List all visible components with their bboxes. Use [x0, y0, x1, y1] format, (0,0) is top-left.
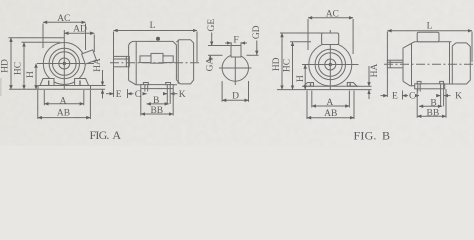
HA tick — [94, 85, 106, 87]
ring 3 — [319, 53, 343, 77]
base pad — [141, 85, 173, 89]
ring 2 — [315, 49, 345, 79]
horizontal centerline — [302, 64, 359, 66]
body outline — [129, 41, 177, 80]
dim AB B — [307, 117, 354, 119]
HC top extension — [22, 41, 61, 43]
E B arrow — [381, 95, 388, 97]
BB left extension — [140, 89, 142, 116]
right hole lines — [167, 85, 170, 104]
shaft collar — [125, 56, 127, 66]
dim H — [35, 64, 37, 90]
dim HD — [10, 38, 12, 90]
dim F left arrow — [225, 42, 231, 44]
pad line B — [302, 85, 359, 87]
terminal box rotated — [82, 50, 97, 64]
hub circle — [59, 58, 70, 69]
left foot — [40, 79, 54, 86]
motor ring 2 — [49, 48, 79, 78]
L left extension — [113, 32, 115, 98]
body seam left — [135, 41, 137, 84]
AC B left ext — [307, 19, 309, 50]
vertical centerline — [63, 30, 65, 89]
GA tick — [208, 54, 223, 56]
left hole lines — [145, 85, 148, 92]
hole lines B left — [418, 84, 420, 92]
A left extension — [43, 90, 45, 105]
HD B top ext — [280, 32, 323, 34]
K B left arrow — [437, 95, 441, 97]
bolt B left — [417, 81, 421, 83]
K B arrow — [444, 95, 451, 97]
body seam right — [177, 40, 179, 84]
left bolt — [143, 83, 148, 85]
C right arrow — [143, 93, 147, 95]
hole lines B right — [441, 84, 444, 107]
dim C arrows — [128, 93, 134, 95]
pad right edge — [90, 86, 92, 90]
GE tick — [208, 45, 231, 47]
BB right extension — [172, 89, 174, 116]
HC B top ext — [290, 41, 311, 43]
terminal bar — [140, 56, 173, 63]
motor ring 3 — [53, 52, 77, 76]
dim E arrow left — [106, 93, 114, 95]
dim A — [44, 103, 84, 105]
shaft B key line — [387, 61, 403, 63]
dim B — [147, 103, 169, 105]
L B left ext — [386, 32, 388, 98]
dim B B — [419, 105, 442, 107]
AD extension — [93, 35, 95, 53]
BB B left ext — [416, 89, 418, 118]
L B right ext — [471, 32, 473, 63]
baseline B — [277, 89, 372, 91]
F ext stubs — [231, 42, 241, 45]
fan cowl — [176, 40, 193, 84]
center dot — [329, 63, 332, 66]
shaft crosshair v — [234, 52, 236, 85]
AB B right ext — [353, 91, 355, 120]
hub — [325, 59, 336, 70]
AC right extension — [85, 24, 87, 51]
GD line — [256, 41, 258, 55]
dim D — [222, 99, 248, 101]
shaft B — [387, 60, 403, 68]
dim AC B — [308, 17, 353, 19]
HA upper line — [102, 70, 104, 86]
HA B tick — [358, 85, 372, 87]
dim AC — [43, 21, 86, 23]
shaft circle — [222, 55, 248, 81]
baseline — [9, 88, 105, 90]
base pad line — [38, 85, 94, 87]
dim L — [114, 30, 198, 32]
GA arrow — [209, 55, 211, 62]
AB B left ext — [306, 91, 308, 120]
base pad B — [415, 84, 445, 89]
seam B left — [411, 43, 413, 86]
GE line — [211, 33, 213, 46]
foot hole ticks — [49, 81, 80, 86]
terminal box top — [322, 33, 339, 45]
dim AD — [64, 32, 94, 34]
L right extension — [196, 32, 198, 63]
dim L B — [387, 30, 472, 32]
D left extension — [221, 81, 223, 102]
right foot B — [347, 83, 357, 87]
center dashline B — [384, 63, 473, 65]
A B right ext — [348, 91, 350, 108]
AB right extension — [89, 90, 91, 119]
eyebolt — [156, 37, 160, 41]
shaft — [114, 56, 130, 66]
body bottom — [129, 80, 177, 84]
dim HC B — [292, 42, 294, 90]
dim A B — [312, 105, 350, 107]
dim F right arrow — [241, 42, 247, 44]
dim AB — [38, 117, 91, 119]
horizontal centerline — [37, 63, 94, 65]
key — [231, 46, 241, 58]
D right extension — [248, 81, 250, 102]
dim BB — [141, 113, 173, 115]
A right extension — [83, 90, 85, 105]
K left arrow — [163, 93, 167, 95]
HA B lower arrow — [368, 90, 370, 99]
HD top extension — [9, 37, 65, 39]
C B right arrow — [416, 95, 420, 97]
center dot — [63, 62, 66, 65]
right bolt — [166, 83, 171, 85]
dim H B — [304, 65, 306, 90]
box B top — [417, 32, 439, 42]
cowl B — [452, 43, 470, 84]
vertical centerline — [329, 30, 331, 90]
bolt B right — [440, 81, 444, 83]
right foot — [75, 79, 89, 86]
A B left ext — [311, 91, 313, 108]
terminal raised box — [151, 53, 163, 63]
HA B upper line — [368, 66, 370, 86]
shaft B collar — [389, 60, 391, 68]
AC B right ext — [352, 19, 354, 54]
BB B right ext — [445, 89, 447, 118]
dim HC — [23, 42, 25, 89]
HA lower arrow — [102, 90, 104, 99]
dim BB B — [417, 115, 446, 117]
body B outline — [403, 42, 451, 86]
dim HD B — [281, 33, 283, 90]
faint edge streak left — [0, 78, 2, 96]
left foot B — [304, 83, 314, 87]
C B left arrow — [403, 95, 409, 97]
foot hole ticks B — [311, 83, 351, 86]
shaft crosshair h — [219, 67, 252, 69]
AB left extension — [37, 90, 39, 119]
E B right bar — [402, 91, 404, 100]
GD tick — [247, 54, 259, 56]
motor outer circle — [43, 43, 85, 85]
shaft key line — [114, 58, 130, 60]
pad left edge — [37, 86, 39, 90]
paper grain — [0, 0, 474, 146]
K arrow — [171, 93, 178, 95]
center dashline — [110, 62, 201, 64]
body B bottom — [445, 83, 453, 85]
E right bar — [127, 89, 129, 98]
AC left extension — [42, 24, 44, 49]
motor outer circle — [309, 43, 352, 86]
seam B right — [449, 42, 451, 84]
